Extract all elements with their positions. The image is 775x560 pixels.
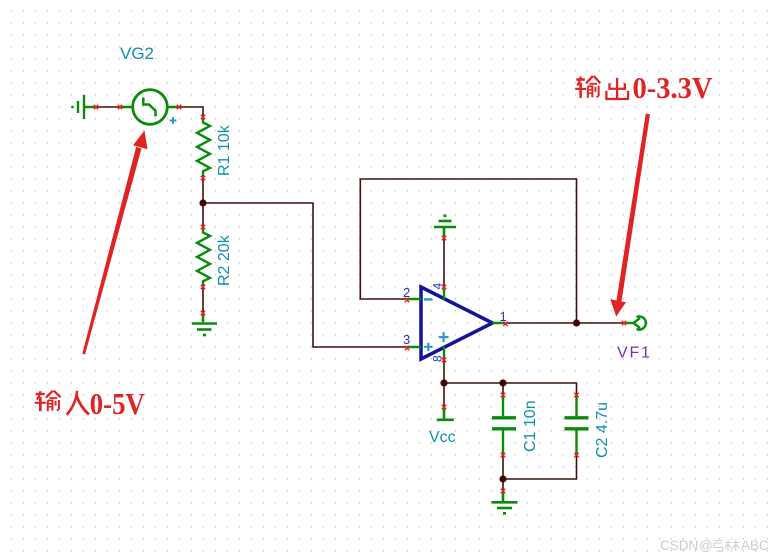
node (C1 bottom junction): [499, 475, 506, 482]
output pin VF1: [623, 316, 646, 329]
svg-text:1: 1: [500, 309, 507, 324]
wire: [502, 455, 504, 491]
op-amp U1: [403, 283, 507, 363]
svg-text:Vcc: Vcc: [429, 429, 456, 446]
svg-text:0-5V: 0-5V: [90, 386, 146, 421]
svg-text:C1 10n: C1 10n: [522, 400, 539, 452]
label C1 10n: [522, 400, 539, 452]
resistor R1: [197, 117, 210, 178]
label R2 20k: [216, 234, 233, 286]
svg-text:@: @: [699, 538, 713, 553]
svg-text:0-3.3V: 0-3.3V: [633, 70, 714, 105]
annotation arrow (output, pointing to VF1): [610, 114, 650, 317]
plus mark (pin 3 input): [424, 343, 433, 351]
power terminal Vcc: [437, 407, 454, 420]
svg-text:ABC: ABC: [741, 538, 769, 553]
node (output / feedback junction): [573, 319, 580, 326]
voltage source VG2: [120, 90, 179, 125]
wire: [202, 287, 204, 313]
svg-text:R2 20k: R2 20k: [216, 234, 233, 286]
watermark CSDN: [660, 538, 769, 553]
pin connection x-marks: [94, 105, 626, 493]
wire: [443, 238, 445, 287]
svg-text:3: 3: [403, 332, 410, 347]
minus mark (pin 2 input): [424, 298, 433, 300]
annotation text 输入0-5V: [35, 386, 146, 421]
svg-text:CSDN: CSDN: [660, 538, 698, 553]
node (R1/R2 junction): [199, 199, 206, 206]
label VF1: [617, 345, 652, 362]
label C2 4.7u: [594, 402, 611, 458]
wire: [203, 203, 407, 347]
annotation arrow (input, pointing to VG2): [82, 131, 147, 355]
wire: [97, 106, 120, 108]
label VG2: [120, 44, 154, 63]
wire: [503, 455, 577, 479]
ground (above op-amp, flipped): [434, 216, 456, 238]
svg-text:VF1: VF1: [617, 345, 652, 362]
wire: [502, 383, 504, 395]
ground (below capacitors): [492, 491, 518, 513]
ground (below R2): [192, 313, 217, 335]
svg-text:R1 10k: R1 10k: [216, 124, 233, 176]
wire: [444, 383, 577, 395]
svg-text:C2 4.7u: C2 4.7u: [594, 402, 611, 458]
node (C1 top junction): [499, 379, 506, 386]
label R1 10k: [216, 124, 233, 176]
node (pin8 / Vcc junction): [440, 379, 447, 386]
wire: [179, 107, 203, 117]
capacitor C1: [492, 395, 516, 455]
wire (feedback loop): [360, 179, 576, 323]
wire: [443, 360, 445, 407]
plus mark (supply): [439, 332, 449, 342]
wire: [202, 178, 204, 227]
resistor R2: [197, 227, 210, 287]
capacitor C2: [565, 395, 589, 455]
label Vcc: [429, 429, 456, 446]
ground (left of VG2): [73, 95, 98, 119]
annotation text 输出0-3.3V: [575, 70, 713, 105]
svg-text:VG2: VG2: [120, 44, 154, 63]
wire (output): [505, 322, 623, 324]
